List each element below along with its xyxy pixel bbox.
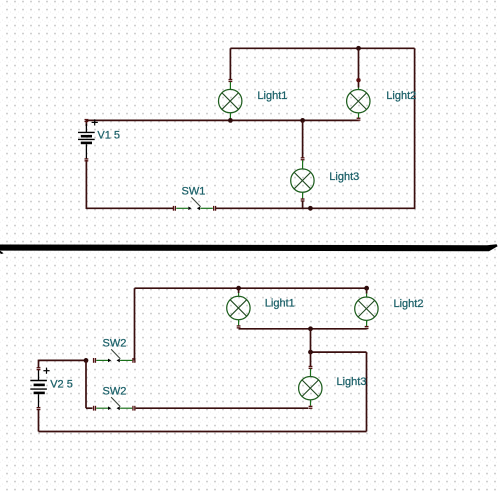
lamp Light2 (top circuit) <box>347 48 370 121</box>
junction node middle rail / Light3 <box>300 118 305 123</box>
battery V1 plus sign <box>92 119 98 125</box>
lamp Light2 (bottom circuit) <box>355 288 378 329</box>
wire battery V2 top stub <box>38 360 40 368</box>
junction node top rail / Light2 <box>356 46 361 51</box>
svg-text:Light1: Light1 <box>265 297 295 309</box>
svg-text:Light2: Light2 <box>394 298 424 310</box>
wire bottom rail <box>39 431 367 433</box>
wire battery V1 top stub <box>85 120 87 126</box>
wire middle rail <box>86 119 358 121</box>
wire branch down to lower SW2 <box>85 360 87 408</box>
switch SW2 lower <box>93 397 136 410</box>
wire top rail (bottom circuit) <box>135 287 367 289</box>
svg-text:V2 5: V2 5 <box>50 379 73 391</box>
wire right rail <box>414 48 416 208</box>
junction node battery branch <box>84 358 89 363</box>
separator left hook <box>0 251 4 254</box>
svg-text:Light3: Light3 <box>337 376 367 388</box>
pin marker battery V1 + <box>85 119 89 122</box>
wire lamps bottom rail (bottom circuit) <box>239 328 367 330</box>
junction node lamps rail / Light3 branch <box>308 326 313 331</box>
wire bottom rail left of SW1 <box>86 207 173 209</box>
lamp Light1 (top circuit) <box>219 48 242 119</box>
pin marker battery V2 - <box>37 407 41 410</box>
junction node bottom rail <box>308 206 313 211</box>
junction node mid link <box>308 350 313 355</box>
junction node Light1 bottom <box>228 118 233 123</box>
wire mid vertical to Light3 <box>310 329 312 366</box>
svg-text:Light2: Light2 <box>386 90 416 102</box>
junction node Light1 top (bottom circuit) <box>236 286 241 291</box>
wire lower-left corner stub <box>86 407 93 409</box>
wire lower SW2 to Light3 <box>136 407 309 409</box>
svg-text:SW2: SW2 <box>103 338 127 350</box>
svg-text:Light3: Light3 <box>329 171 359 183</box>
switch SW2 upper <box>93 349 136 363</box>
wire bottom rail right of SW1 <box>215 207 415 209</box>
switch SW1 <box>173 197 216 211</box>
wire riser from SW2 upper <box>134 288 136 360</box>
separator line <box>0 244 498 251</box>
junction node Light2 top (bottom circuit) <box>364 286 369 291</box>
svg-text:SW1: SW1 <box>182 185 206 197</box>
wire battery V2 to junction <box>39 359 87 361</box>
wire battery V1 bottom to rail <box>85 160 87 209</box>
svg-text:V1 5: V1 5 <box>97 130 120 142</box>
wire link to mid vertical <box>311 351 367 353</box>
lamp Light1 (bottom circuit) <box>227 288 250 328</box>
svg-text:SW2: SW2 <box>103 386 127 398</box>
wire top rail <box>230 47 414 49</box>
battery V2 plus sign <box>43 368 49 374</box>
battery V1 <box>78 124 95 159</box>
lamp Light3 (bottom circuit) <box>299 366 322 409</box>
battery V2 <box>30 370 47 407</box>
wire right riser <box>366 352 368 431</box>
pin marker battery V2 + <box>37 367 41 370</box>
wire battery V2 bottom to rail <box>38 409 40 431</box>
pin marker battery V1 - <box>85 158 89 161</box>
lamp Light3 (top circuit) <box>291 120 314 208</box>
svg-text:Light1: Light1 <box>257 90 287 102</box>
